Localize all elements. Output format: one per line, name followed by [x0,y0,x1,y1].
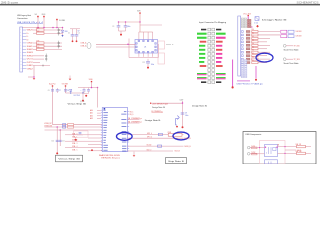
wire sensor drop left [53,124,103,126]
svg-text:VCC 3V3: VCC 3V3 [243,13,251,15]
svg-text:5V0B: 5V0B [89,79,93,81]
svg-text:VB_5: VB_5 [130,111,134,113]
wire 5L down [56,20,58,27]
series element row 9 [246,58,250,60]
svg-text:Design Note B:: Design Note B: [145,119,162,122]
svg-text:100n: 100n [151,64,155,66]
blue bracket symbol [176,119,179,128]
svg-text:D 10: D 10 [254,22,258,24]
wire 5v0b down [91,82,93,87]
svg-text:USB Components: USB Components [245,133,261,136]
resistor R3 [36,41,44,45]
blue chevron mid [177,116,179,120]
series comp row1 blue [63,124,66,126]
via dot bus bottom [232,86,234,88]
series element row 8 [246,55,250,57]
usb device symbol T2 [265,160,278,164]
svg-text:Scott Test Side: Scott Test Side [284,49,299,52]
component block dark red grid [247,19,251,27]
svg-text:C7: C7 [59,90,61,92]
svg-text:Connection: Connection [17,17,28,20]
svg-text:100n: 100n [127,26,131,28]
series element row 1 [246,31,250,33]
svg-text:Strip Note B: Strip Note B [168,160,184,163]
svg-text:C6: C6 [48,90,50,92]
note dashes right of U1 [166,44,174,46]
capacitor C4 [124,22,131,31]
wire row 10 [258,62,267,64]
svg-text:GN2: GN2 [27,68,33,70]
capacitor C7 [56,88,61,93]
resistor row 10 [251,60,258,64]
wire dm drop [59,130,61,146]
connector J2 body [238,16,241,76]
wire net row R3 [33,42,37,44]
resistor row 1 [251,29,258,33]
wire top power rail [22,27,63,29]
wire net row R5 [33,48,37,50]
test point TP2 [283,58,299,65]
wire net row n6 [33,55,44,57]
wire row 9 [258,58,270,60]
wire usb right row2 [285,150,302,152]
svg-text:5L USB: 5L USB [59,20,66,22]
series element row 6 [246,48,250,50]
junction dp [56,126,58,128]
resistor R1 22R [36,28,44,32]
svg-text:VUSB_DM: VUSB_DM [44,126,52,128]
filter pair row2 [281,35,303,38]
J1 pin stubs [23,30,27,69]
capacitor C3 [112,22,120,31]
capacitor C9 [181,113,189,118]
svg-text:M OWNER p: M OWNER p [128,121,142,123]
power pad VCC 3V3 [243,13,251,16]
svg-text:+3V3 SENSOR pwr: +3V3 SENSOR pwr [152,102,168,105]
wire row 1 [258,31,280,33]
power pad Aux Pwr [49,82,56,86]
resistor R4 [36,44,44,48]
J2 pin box row 1 [242,31,244,33]
wires into U2 left lower [65,132,102,151]
svg-text:Aux Pwr: Aux Pwr [49,82,56,85]
highlight ellipse right [256,53,273,62]
wire row 3 [258,37,270,39]
svg-text:Design Note 30: Design Note 30 [192,104,207,107]
series element row 2 [246,34,250,36]
power pad 5V USB [62,83,69,86]
svg-text:C8: C8 [67,90,69,92]
net stub VCC3V3 [74,92,85,101]
cap C2 [75,29,80,42]
wire U2 row gpx [128,134,184,136]
wire drop to via [255,66,257,81]
svg-text:GPO_0: GPO_0 [147,137,152,139]
power pad 5L USB [56,19,65,22]
series blue row ss [158,145,162,147]
J1 net labels [27,30,34,71]
power pad 5V0 [35,14,39,17]
ferrite circle annotation [87,43,91,49]
wire USB_D+ into U1 [96,43,136,45]
power pad VBUS [42,14,46,17]
crystal cap marks [77,133,83,135]
junction mid rail [182,102,184,104]
U2 right top labels [130,111,135,115]
capacitor C14 [87,88,90,94]
wire net row n7 [33,58,44,60]
resistor row 2 [251,32,258,36]
wire net row R2 [33,32,37,34]
junctions on cap rail [118,21,141,23]
wire VBUS down [43,17,45,27]
svg-text:C12: C12 [142,62,145,64]
filter pair row1 [281,30,303,33]
series element row 4 [246,41,250,43]
ground pad right [69,76,72,81]
svg-text:VUSB_DP: VUSB_DP [44,123,51,125]
junction dm [59,129,61,131]
resistor R2 22R [36,31,44,35]
svg-text:Input Connector Pin Mapping: Input Connector Pin Mapping [199,21,226,24]
wire 3V3 down [139,14,141,22]
ground dot mid [120,34,122,36]
test point TP1 [283,44,299,51]
wire row 4 [258,41,267,43]
ground dot u2 left [91,149,93,151]
J2 pin box row 8 [242,55,244,57]
wire row 6 [258,48,267,50]
wire loop usb [260,141,286,165]
svg-text:10K/16V: 10K/16V [296,36,303,38]
resistor row2 [68,126,74,128]
svg-text:USB_D+: USB_D+ [81,43,88,45]
resistor row gpx [168,132,183,136]
junction dots on rail [37,27,63,29]
wire bottom row link2 [33,65,50,67]
series element row 7 [246,51,250,53]
svg-text:C2: C2 [78,32,80,34]
wire loop right of U1 lower [158,53,165,64]
wire VCC drop highlighted [248,16,252,27]
label box Venus Strip 30 [56,155,83,162]
header rule [0,4,320,6]
svg-text:SCHEMATICS: SCHEMATICS [297,0,319,4]
wire USB_D- into U1 [96,46,136,48]
wire 3v3 drop mid [182,101,184,126]
U2 right mid wires and labels [128,118,142,124]
wire rail2 [78,87,98,89]
wire usb right row3 [278,151,312,155]
svg-text:M OWNER p: M OWNER p [128,118,142,120]
wire gnd drop [28,66,35,78]
ground under U2 [133,152,136,157]
tvs circle 2 [247,152,264,155]
J2 pin box row 4 [242,41,244,43]
wire row 8 [258,55,267,57]
J2 pin box row 6 [242,48,244,50]
U1 pin boxes [136,40,157,53]
power pad 5V0B [89,79,93,83]
svg-text:C9: C9 [185,113,187,115]
J2 pin box row 3 [242,38,244,40]
svg-text:C11: C11 [62,141,65,143]
series comp row2 blue [63,126,66,128]
table pin squares [208,28,215,83]
wire sensor rail [151,102,182,104]
ground symbol left [33,78,36,80]
capacitor C5 [142,59,154,67]
wire usb dm row [45,129,103,131]
svg-text:DM2: DM2 [27,65,33,67]
resistor row 6 [251,46,258,50]
label box Strip Note B [166,158,187,164]
resistor row 8 [251,53,258,57]
ground dot rail2 [85,95,87,97]
op IC U1 body [135,40,158,54]
tvs circle 1 [247,146,264,149]
resistor row 4 [251,39,258,43]
via tick on bottom link [42,65,44,67]
U2 right pin names [121,112,129,151]
svg-text:5V USB: 5V USB [62,83,69,85]
svg-text:SCK_B: SCK_B [175,151,180,153]
wire cap rail [70,29,80,33]
highlight ellipse U2 pins [117,133,133,141]
J2 upper pin grid [241,18,246,28]
junction on D+ [127,44,129,46]
wire 5V0 down [37,17,39,27]
esd array row n7 [45,57,47,62]
U2 left pin stubs [101,110,103,150]
wire aux down [52,87,54,125]
svg-text:SH2: SH2 [27,49,33,51]
svg-text:SS_B0: SS_B0 [147,145,152,147]
highlight ellipse U2 row [173,132,189,140]
capacitor C11 [59,140,65,142]
wire cap join2 [84,93,89,95]
ground dot mid rail [182,126,184,128]
wire cap rail top [119,21,141,23]
series element row 3 [246,37,250,39]
svg-text:VCC3V3: VCC3V3 [74,95,80,97]
wire 3v3 rail to U2 [97,88,99,108]
magenta rail under J2 [237,80,250,82]
resistor row1 [68,124,74,126]
resistor row 3 [251,36,258,40]
wire dp drop [56,127,58,153]
svg-text:SH3: SH3 [27,52,33,54]
table striped power cells [197,73,226,79]
connector J1 body [20,27,23,72]
wire usb right row1 [278,144,312,148]
J2 pin box row 10 [242,62,244,64]
wire 5v down [66,87,84,93]
svg-text:TP_3V3: TP_3V3 [294,59,300,61]
series blue row gpx [158,133,162,135]
esd array row R4 [58,44,60,49]
power pad 3V3 [137,11,140,14]
J2 lower pin grid [241,60,247,78]
wire cap join [119,31,126,34]
svg-text:Scott Test Side: Scott Test Side [284,62,299,65]
svg-text:VBUS: VBUS [42,14,46,16]
svg-text:10K/16V: 10K/16V [296,31,303,33]
wire row 5 [258,44,270,46]
mcu U2 body [102,108,127,152]
esd array row R3 [58,41,60,46]
svg-text:Design Note 30: Design Note 30 [152,106,165,109]
svg-text:C10: C10 [51,141,54,143]
svg-text:DP2: DP2 [27,62,33,64]
J1 pin numbers [20,29,22,70]
note: USB Legacy Host Connection title [17,14,31,20]
table signal name cells [197,29,226,83]
svg-text:C3: C3 [112,26,114,28]
zener D2 [70,89,72,93]
svg-text:Design Note B:: Design Note B: [262,19,288,22]
U2 left pin names [103,110,108,150]
U2 pin1 mark [104,108,106,110]
svg-text:USB_D-: USB_D- [81,45,88,47]
svg-text:USB Legacy Host: USB Legacy Host [17,14,31,17]
svg-text:C1: C1 [68,32,70,34]
wire net row R1 [33,29,37,31]
bus junction dot [97,87,99,89]
ground dot crystal [75,137,77,141]
capacitor C6 [48,90,54,92]
wire U2 row gpo [128,137,184,139]
esd array on row R1 [58,28,60,33]
wire U2 row sck [128,150,174,152]
svg-text:D+: D+ [27,33,29,35]
esd array on row R2 [58,31,60,36]
diode D10 symbol [254,17,259,28]
wire net row R4 [33,45,37,47]
svg-text:U1: U1 [144,47,146,49]
svg-text:SCK_0: SCK_0 [147,150,152,152]
svg-text:2/6 5 com: 2/6 5 com [1,0,19,4]
J2 pin box row 7 [242,51,244,53]
resistor row 5 [251,43,258,47]
svg-text:MISO_B: MISO_B [185,138,191,140]
svg-text:SH1: SH1 [27,46,33,48]
wire after R3 [44,42,62,44]
wire row 7 [258,51,270,53]
wire bottom row link [33,61,40,63]
wire U2 row ss [128,145,184,147]
resistor row 7 [251,50,258,54]
svg-text:TP_5V0: TP_5V0 [294,46,300,48]
wire after R5 [44,48,62,50]
wire usb dp row [45,126,103,128]
svg-text:Venus Strip 30: Venus Strip 30 [58,158,81,161]
zener D1 3V6 [61,28,67,37]
usb device symbol T1 [265,145,280,157]
wire loop right of U1 upper [158,41,165,49]
svg-text:5V0: 5V0 [35,14,38,16]
junction rail2 [91,87,93,89]
svg-text:USB PRODUCT PLANS (p): USB PRODUCT PLANS (p) [237,82,263,85]
capacitor C13 [81,88,86,94]
wire row 2 [258,34,280,36]
wire loop around U1 [129,39,159,58]
J2 pin box row 2 [242,34,244,36]
wire after R4 [44,45,62,47]
wires into U2 left top [90,109,101,120]
esd array row n6 [45,54,47,59]
J2 pin box row 9 [242,58,244,60]
junction dots usb loop [259,146,286,154]
ground dot under C5 [147,67,149,69]
bus wire vertical highlighted [232,60,234,87]
ground dot dp [56,152,58,154]
capacitor C8 [64,90,69,92]
wire fan to U1 [139,22,162,40]
series element row 10 [246,62,250,64]
svg-text:VENUS 30 pcs: VENUS 30 pcs [101,158,120,160]
svg-text:100n: 100n [185,115,189,117]
note: +3V3 sensor label [150,102,168,105]
resistor row 9 [251,57,258,61]
svg-text:Venus Strip 30: Venus Strip 30 [68,102,88,105]
svg-text:+: + [81,90,82,92]
capacitor C10 [51,140,58,142]
wire after R1 [44,29,62,31]
series element row 5 [246,44,250,46]
svg-text:MOSI_B: MOSI_B [185,146,191,148]
wire after R2 [44,32,62,34]
USB components box frame [243,132,316,165]
wire loop crystal [74,131,89,137]
note: red underlined link [152,111,164,113]
svg-text:3V3: 3V3 [137,11,140,13]
svg-text:GPX_0: GPX_0 [147,133,152,135]
J2 pin box row 5 [242,44,244,46]
cap C1 [68,29,74,42]
note: blue document link text [17,22,44,24]
resistor R5 [36,47,44,51]
svg-text:SH4: SH4 [27,55,33,57]
U1 bottom pin wires [139,53,153,57]
